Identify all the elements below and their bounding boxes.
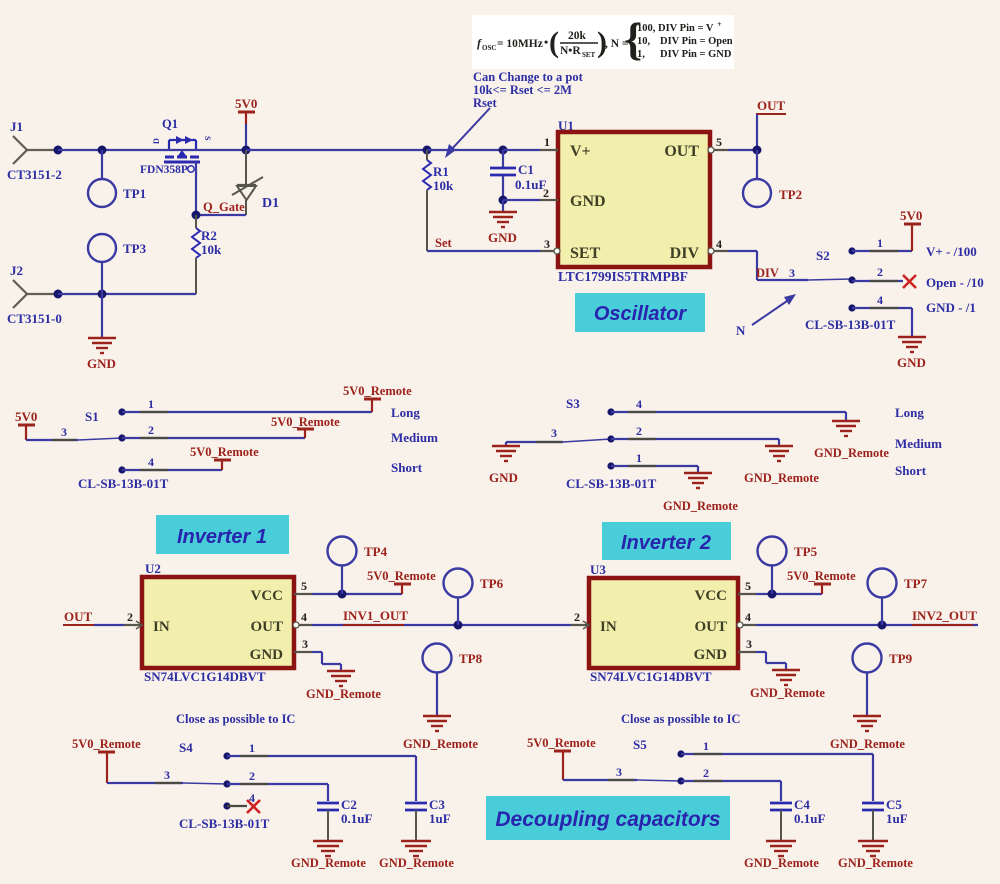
testpoint TP1 bbox=[88, 179, 146, 207]
svg-text:10k: 10k bbox=[201, 242, 222, 257]
wire S2 pin2 bbox=[852, 265, 903, 281]
formula box bbox=[472, 13, 734, 69]
wire pin3 to GND_Remote bbox=[312, 652, 341, 664]
wire pin4 DIV bbox=[728, 251, 808, 280]
svg-text:Short: Short bbox=[391, 460, 423, 475]
svg-text:0.1uF: 0.1uF bbox=[794, 811, 825, 826]
ground GND_Remote TP9 bbox=[830, 716, 905, 751]
ground GND_Remote S3-2 bbox=[744, 439, 819, 485]
svg-text:SN74LVC1G14DBVT: SN74LVC1G14DBVT bbox=[590, 669, 712, 684]
svg-text:GND: GND bbox=[897, 355, 926, 370]
power 5V0_Remote S1-4 bbox=[190, 445, 259, 470]
svg-text:GND: GND bbox=[694, 647, 728, 663]
svg-text:J2: J2 bbox=[10, 263, 23, 278]
svg-text:= 10MHz: = 10MHz bbox=[497, 38, 543, 50]
label Oscillator bbox=[575, 293, 705, 332]
label Decoupling capacitors bbox=[486, 796, 730, 840]
svg-text:U2: U2 bbox=[145, 561, 161, 576]
svg-text:Open - /10: Open - /10 bbox=[926, 275, 984, 290]
junction dot bbox=[54, 146, 63, 155]
svg-text:1uF: 1uF bbox=[886, 811, 908, 826]
svg-text:5: 5 bbox=[301, 579, 307, 593]
svg-text:TP9: TP9 bbox=[889, 651, 913, 666]
svg-text:5: 5 bbox=[745, 579, 751, 593]
svg-text:SN74LVC1G14DBVT: SN74LVC1G14DBVT bbox=[144, 669, 266, 684]
switch S1 bbox=[78, 408, 169, 491]
testpoint TP9 bbox=[853, 644, 913, 717]
testpoint TP8 bbox=[423, 644, 483, 717]
svg-text:2: 2 bbox=[127, 610, 133, 624]
connector J2 bbox=[7, 263, 62, 326]
svg-text:5V0_Remote: 5V0_Remote bbox=[271, 415, 340, 429]
svg-text:Inverter 1: Inverter 1 bbox=[177, 526, 267, 548]
resistor R1 bbox=[423, 150, 454, 251]
wire J1 to node bbox=[27, 149, 58, 151]
junction dot bbox=[192, 211, 201, 220]
svg-text:R2: R2 bbox=[201, 228, 217, 243]
wire S5 pin2 bbox=[681, 766, 781, 801]
svg-text:GND_Remote: GND_Remote bbox=[750, 686, 825, 700]
svg-text:4: 4 bbox=[745, 610, 751, 624]
pin 2 U2 bbox=[124, 610, 142, 629]
svg-text:OUT: OUT bbox=[694, 619, 727, 635]
wire S4 pole bbox=[107, 768, 183, 783]
wire S3 pin1 bbox=[611, 451, 698, 466]
junction dot TP4 bbox=[338, 590, 347, 599]
svg-text:5V0_Remote: 5V0_Remote bbox=[190, 445, 259, 459]
switch S3 bbox=[563, 396, 657, 491]
label Inverter 2 bbox=[602, 522, 731, 560]
svg-text:GND - /1: GND - /1 bbox=[926, 300, 976, 315]
power 5V0_Remote S5 bbox=[527, 736, 596, 780]
wire S3 pin2 bbox=[611, 424, 779, 439]
svg-text:5V0_Remote: 5V0_Remote bbox=[343, 384, 412, 398]
svg-text:Medium: Medium bbox=[391, 430, 438, 445]
svg-text:3: 3 bbox=[551, 426, 557, 440]
svg-text:GND_Remote: GND_Remote bbox=[744, 856, 819, 870]
svg-text:10k<= Rset <= 2M: 10k<= Rset <= 2M bbox=[473, 83, 572, 97]
svg-text:2: 2 bbox=[543, 186, 549, 200]
wire bbox=[58, 293, 196, 295]
svg-text:C2: C2 bbox=[341, 797, 357, 812]
junction dot OUT bbox=[753, 146, 762, 155]
label Inverter 1 bbox=[156, 515, 289, 554]
wire to TP1 bbox=[101, 150, 103, 179]
svg-text:DIV: DIV bbox=[670, 245, 700, 262]
svg-text:J1: J1 bbox=[10, 119, 23, 134]
wire S3 pin4 bbox=[611, 397, 846, 412]
svg-text:5V0_Remote: 5V0_Remote bbox=[72, 737, 141, 751]
wire pin5 to 5V0_Remote bbox=[756, 593, 822, 595]
testpoint TP6 bbox=[444, 569, 504, 626]
switch S5 bbox=[633, 737, 685, 785]
svg-text:GND: GND bbox=[570, 193, 606, 210]
ground GND_Remote C5 bbox=[838, 841, 913, 870]
wire S4 pin2 bbox=[227, 769, 328, 801]
svg-text:1: 1 bbox=[249, 741, 255, 755]
svg-text:2: 2 bbox=[636, 424, 642, 438]
svg-text:1: 1 bbox=[544, 135, 550, 149]
switch S4 bbox=[179, 740, 270, 831]
capacitor C2 bbox=[317, 797, 372, 841]
node Set wire bbox=[427, 236, 540, 251]
svg-text:5V0_Remote: 5V0_Remote bbox=[787, 569, 856, 583]
arrow N bbox=[736, 294, 796, 338]
svg-text:Medium: Medium bbox=[895, 436, 942, 451]
pin 5 bbox=[708, 135, 728, 153]
op-amp U3 inverter bbox=[589, 562, 738, 684]
svg-text:OUT: OUT bbox=[664, 143, 699, 160]
pin 5 U3 bbox=[738, 579, 756, 594]
wire S3 pole bbox=[506, 426, 563, 442]
power 5V0_Remote U3 bbox=[787, 569, 856, 594]
wire Q1 to 5V0 node bbox=[165, 149, 246, 151]
wire pin5 to OUT node bbox=[728, 149, 757, 151]
svg-text:Q_Gate: Q_Gate bbox=[203, 200, 245, 214]
wire R1 top to C1 bbox=[427, 149, 503, 151]
pin 4 U3 bbox=[737, 610, 756, 628]
testpoint TP4 bbox=[328, 537, 388, 595]
svg-text:FDN358P: FDN358P bbox=[140, 164, 188, 176]
wire INV1_OUT bbox=[312, 608, 571, 625]
svg-text:C1: C1 bbox=[518, 162, 534, 177]
testpoint TP5 bbox=[758, 537, 818, 595]
wire C1 bottom to pin2 bbox=[503, 199, 540, 201]
svg-text:Long: Long bbox=[895, 405, 924, 420]
svg-text:•: • bbox=[544, 35, 548, 49]
svg-text:TP5: TP5 bbox=[794, 544, 818, 559]
svg-text:GND_Remote: GND_Remote bbox=[830, 737, 905, 751]
junction dot bbox=[54, 290, 63, 299]
svg-text:V+: V+ bbox=[570, 143, 591, 160]
svg-text:5V0: 5V0 bbox=[15, 409, 37, 424]
wire S5 pole bbox=[563, 765, 637, 780]
junction dot C1 top bbox=[499, 146, 508, 155]
wire S2 pin1 bbox=[852, 236, 912, 251]
svg-text:4: 4 bbox=[636, 397, 642, 411]
svg-text:5V0: 5V0 bbox=[900, 208, 922, 223]
svg-text:Inverter 2: Inverter 2 bbox=[621, 532, 711, 554]
testpoint TP2 bbox=[743, 150, 802, 207]
svg-text:5V0_Remote: 5V0_Remote bbox=[367, 569, 436, 583]
pin 5 U2 bbox=[294, 579, 312, 594]
svg-text:SET: SET bbox=[582, 51, 596, 59]
svg-text:1: 1 bbox=[148, 397, 154, 411]
svg-text:GND_Remote: GND_Remote bbox=[306, 687, 381, 701]
svg-text:TP6: TP6 bbox=[480, 576, 504, 591]
svg-text:TP2: TP2 bbox=[779, 187, 802, 202]
pin 3 U3 bbox=[738, 637, 756, 652]
node Q_Gate bbox=[196, 200, 246, 215]
svg-text:CL-SB-13B-01T: CL-SB-13B-01T bbox=[78, 476, 169, 491]
transistor Q1 bbox=[140, 117, 212, 176]
svg-text:D: D bbox=[152, 138, 161, 144]
svg-text:4: 4 bbox=[716, 237, 722, 251]
svg-text:Can Change to a pot: Can Change to a pot bbox=[473, 70, 584, 84]
junction dot R1 top bbox=[423, 146, 432, 155]
labels Long Medium Short right bbox=[895, 405, 942, 478]
ground GND_Remote C3 bbox=[379, 841, 454, 870]
svg-text:TP7: TP7 bbox=[904, 576, 928, 591]
svg-text:GND: GND bbox=[488, 230, 517, 245]
svg-text:Close as possible to IC: Close as possible to IC bbox=[176, 712, 295, 726]
capacitor C5 bbox=[862, 797, 908, 841]
svg-text:GND_Remote: GND_Remote bbox=[663, 499, 738, 513]
svg-text:2: 2 bbox=[877, 265, 883, 279]
svg-text:VCC: VCC bbox=[695, 588, 728, 604]
svg-text:3: 3 bbox=[789, 266, 795, 280]
wire bbox=[58, 149, 165, 151]
svg-text:3: 3 bbox=[616, 765, 622, 779]
svg-text:GND_Remote: GND_Remote bbox=[291, 856, 366, 870]
pin 3 U2 bbox=[294, 637, 312, 652]
svg-text:TP4: TP4 bbox=[364, 544, 388, 559]
capacitor C1 bbox=[490, 150, 546, 200]
pin 1 bbox=[540, 135, 558, 150]
svg-text:2: 2 bbox=[148, 423, 154, 437]
ground GND at S2 bbox=[897, 337, 926, 370]
svg-text:Q1: Q1 bbox=[162, 117, 178, 131]
svg-text:3: 3 bbox=[746, 637, 752, 651]
svg-text:LTC1799IS5TRMPBF: LTC1799IS5TRMPBF bbox=[558, 269, 688, 284]
wire S4 pin4 stub bbox=[227, 791, 255, 806]
ground GND bbox=[87, 338, 116, 371]
svg-text:S: S bbox=[203, 136, 212, 141]
junction dot C1 bottom bbox=[499, 196, 508, 205]
svg-text:1: 1 bbox=[703, 739, 709, 753]
svg-text:TP3: TP3 bbox=[123, 241, 147, 256]
junction dot TP6 bbox=[454, 621, 463, 630]
svg-text:CL-SB-13B-01T: CL-SB-13B-01T bbox=[566, 476, 657, 491]
ground GND_Remote U2 bbox=[306, 664, 381, 701]
note Can Change to a pot bbox=[473, 70, 584, 110]
svg-text:GND_Remote: GND_Remote bbox=[814, 446, 889, 460]
svg-text:+: + bbox=[717, 20, 722, 29]
svg-text:GND: GND bbox=[250, 647, 284, 663]
wire S1 pin4 bbox=[122, 455, 222, 470]
svg-text:INV1_OUT: INV1_OUT bbox=[343, 608, 408, 623]
labels Long Medium Short left bbox=[391, 405, 438, 475]
wire INV2_OUT bbox=[756, 608, 978, 625]
svg-text:0.1uF: 0.1uF bbox=[341, 811, 372, 826]
ground GND_Remote TP8 bbox=[403, 716, 478, 751]
svg-text:4: 4 bbox=[877, 293, 883, 307]
node OUT label left bbox=[63, 609, 124, 625]
svg-text:5V0_Remote: 5V0_Remote bbox=[527, 736, 596, 750]
wire pin3 to GND_Remote bbox=[756, 652, 786, 663]
ground GND_Remote S3-4 bbox=[814, 412, 889, 460]
svg-text:3: 3 bbox=[61, 425, 67, 439]
svg-text:0.1uF: 0.1uF bbox=[515, 177, 546, 192]
svg-text:INV2_OUT: INV2_OUT bbox=[912, 608, 977, 623]
wire Q1 gate down bbox=[195, 162, 197, 215]
wire S5 pin1 bbox=[681, 739, 873, 801]
svg-text:OUT: OUT bbox=[757, 98, 786, 113]
svg-text:D1: D1 bbox=[262, 196, 279, 211]
svg-text:100, DIV Pin = V: 100, DIV Pin = V bbox=[637, 23, 714, 34]
switch S2 bbox=[789, 247, 896, 332]
svg-text:OUT: OUT bbox=[250, 619, 283, 635]
pin 3 bbox=[540, 237, 560, 254]
svg-text:U3: U3 bbox=[590, 562, 606, 577]
junction dot bbox=[242, 146, 251, 155]
wire to GND bbox=[101, 294, 103, 338]
svg-text:OUT: OUT bbox=[64, 609, 93, 624]
junction dot bbox=[98, 290, 107, 299]
ground GND_Remote C2 bbox=[291, 841, 366, 870]
svg-text:3: 3 bbox=[544, 237, 550, 251]
svg-text:Oscillator: Oscillator bbox=[594, 303, 687, 325]
svg-text:N: N bbox=[736, 323, 746, 338]
svg-text:1uF: 1uF bbox=[429, 811, 451, 826]
pin 2 bbox=[540, 186, 558, 200]
svg-text:GND_Remote: GND_Remote bbox=[379, 856, 454, 870]
junction dot TP5 bbox=[768, 590, 777, 599]
capacitor C4 bbox=[770, 797, 825, 841]
power 5V0 at S1 bbox=[15, 409, 37, 440]
svg-text:IN: IN bbox=[600, 619, 617, 635]
svg-text:4: 4 bbox=[301, 610, 307, 624]
svg-text:DIV Pin = GND: DIV Pin = GND bbox=[660, 49, 732, 60]
svg-text:5: 5 bbox=[716, 135, 722, 149]
svg-text:N•R: N•R bbox=[560, 45, 581, 57]
svg-text:TP8: TP8 bbox=[459, 651, 483, 666]
op-amp U2 inverter bbox=[142, 561, 294, 684]
wire 5V0 node to R1 bbox=[246, 149, 427, 151]
svg-text:CL-SB-13B-01T: CL-SB-13B-01T bbox=[805, 317, 896, 332]
svg-text:10,: 10, bbox=[637, 36, 651, 47]
pin 4 bbox=[708, 237, 728, 254]
resistor R2 bbox=[192, 215, 222, 294]
pin 2 U3 bbox=[571, 610, 589, 629]
svg-text:4: 4 bbox=[148, 455, 154, 469]
svg-text:IN: IN bbox=[153, 619, 170, 635]
svg-text:CL-SB-13B-01T: CL-SB-13B-01T bbox=[179, 816, 270, 831]
svg-text:1,: 1, bbox=[637, 49, 645, 60]
wire C1 top to pin1 bbox=[503, 149, 540, 151]
node OUT label bbox=[756, 98, 786, 150]
wire S4 pin1 bbox=[227, 741, 416, 801]
svg-text:2: 2 bbox=[249, 769, 255, 783]
power 5V0_Remote S4 bbox=[72, 737, 141, 783]
svg-text:Set: Set bbox=[435, 236, 453, 250]
svg-text:Long: Long bbox=[391, 405, 420, 420]
svg-text:CT3151-2: CT3151-2 bbox=[7, 167, 62, 182]
svg-text:(: ( bbox=[549, 26, 559, 59]
svg-text:GND_Remote: GND_Remote bbox=[838, 856, 913, 870]
wire pin5 to 5V0_Remote bbox=[312, 593, 402, 595]
svg-text:VCC: VCC bbox=[251, 588, 284, 604]
svg-text:Rset: Rset bbox=[473, 96, 497, 110]
svg-text:1: 1 bbox=[877, 236, 883, 250]
op-amp U1 LTC1799 bbox=[558, 118, 710, 284]
svg-text:GND: GND bbox=[489, 470, 518, 485]
junction dot bbox=[98, 146, 107, 155]
svg-text:GND_Remote: GND_Remote bbox=[403, 737, 478, 751]
svg-text:CT3151-0: CT3151-0 bbox=[7, 311, 62, 326]
svg-text:2: 2 bbox=[574, 610, 580, 624]
svg-text:DIV Pin = Open: DIV Pin = Open bbox=[660, 36, 733, 47]
power 5V0_Remote U2 bbox=[367, 569, 436, 594]
svg-text:S2: S2 bbox=[816, 248, 830, 263]
svg-text:S1: S1 bbox=[85, 409, 99, 424]
svg-text:C4: C4 bbox=[794, 797, 810, 812]
svg-text:OSC: OSC bbox=[482, 44, 496, 52]
svg-text:3: 3 bbox=[302, 637, 308, 651]
svg-text:S3: S3 bbox=[566, 396, 580, 411]
junction dot TP7 bbox=[878, 621, 887, 630]
svg-text:S5: S5 bbox=[633, 737, 647, 752]
svg-text:20k: 20k bbox=[568, 30, 587, 42]
svg-text:SET: SET bbox=[570, 245, 601, 262]
svg-text:3: 3 bbox=[164, 768, 170, 782]
svg-text:Close as possible to IC: Close as possible to IC bbox=[621, 712, 740, 726]
power 5V0_Remote S1-2 bbox=[271, 415, 340, 438]
svg-text:C3: C3 bbox=[429, 797, 445, 812]
svg-text:C5: C5 bbox=[886, 797, 902, 812]
arrow Rset to R1 bbox=[445, 108, 490, 158]
power 5V0 bbox=[235, 96, 257, 150]
connector J1 bbox=[7, 119, 62, 182]
no-connect X bbox=[903, 275, 916, 288]
testpoint TP3 bbox=[88, 234, 147, 294]
wire S1 pole bbox=[26, 425, 78, 440]
svg-text:1: 1 bbox=[636, 451, 642, 465]
wire J2 to node bbox=[27, 293, 58, 295]
wire S1 pin1 bbox=[122, 397, 372, 412]
svg-text:2: 2 bbox=[703, 766, 709, 780]
ground GND_Remote U3 bbox=[750, 663, 825, 700]
svg-text:10k: 10k bbox=[433, 178, 454, 193]
svg-text:Decoupling capacitors: Decoupling capacitors bbox=[495, 808, 720, 831]
svg-text:TP1: TP1 bbox=[123, 186, 146, 201]
pin 4 U2 bbox=[293, 610, 312, 628]
ground GND under C1 bbox=[488, 200, 517, 245]
ground GND at S3 bbox=[489, 442, 520, 485]
svg-text:R1: R1 bbox=[433, 164, 449, 179]
capacitor C3 bbox=[405, 797, 451, 841]
diode D1 zener bbox=[232, 150, 279, 215]
ground GND_Remote S3-1 bbox=[663, 466, 738, 513]
no-connect X S4 bbox=[247, 800, 260, 813]
ground GND_Remote C4 bbox=[744, 841, 819, 870]
wire S2 pin4 bbox=[852, 293, 912, 337]
svg-text:V+ - /100: V+ - /100 bbox=[926, 244, 977, 259]
power 5V0 at S2 bbox=[900, 208, 922, 251]
testpoint TP7 bbox=[868, 569, 928, 626]
svg-text:S4: S4 bbox=[179, 740, 193, 755]
svg-text:GND: GND bbox=[87, 356, 116, 371]
svg-text:Short: Short bbox=[895, 463, 927, 478]
svg-text:GND_Remote: GND_Remote bbox=[744, 471, 819, 485]
svg-text:DIV: DIV bbox=[756, 266, 779, 280]
power 5V0_Remote S1-1 bbox=[343, 384, 412, 412]
wire S1 pin2 bbox=[122, 423, 305, 438]
svg-text:5V0: 5V0 bbox=[235, 96, 257, 111]
